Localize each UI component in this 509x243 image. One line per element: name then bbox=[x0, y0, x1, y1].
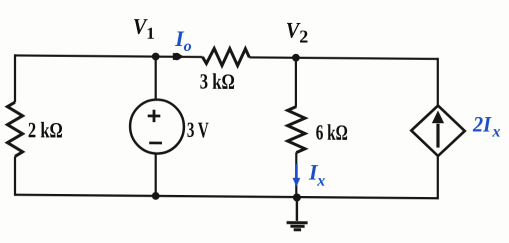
wire V1 to source top bbox=[155, 57, 157, 100]
voltage source V 3V circle bbox=[130, 99, 184, 153]
ground bar 1 bbox=[287, 221, 308, 224]
wire top-right segment bbox=[249, 57, 437, 59]
wire source bottom to bottom node bbox=[155, 153, 157, 196]
svg-text:2I: 2I bbox=[472, 112, 492, 137]
plus sign bbox=[148, 110, 161, 123]
node V2 dot bbox=[292, 54, 300, 62]
wire right side upper bbox=[437, 58, 439, 106]
node bottom-middle dot bbox=[152, 192, 160, 200]
resistor R3 6 kOhm zigzag bbox=[288, 106, 305, 152]
Ix blue arrow head bbox=[293, 178, 301, 187]
svg-text:3 V: 3 V bbox=[187, 117, 209, 142]
svg-text:2 kΩ: 2 kΩ bbox=[28, 117, 63, 142]
ground bar 2 bbox=[290, 225, 304, 228]
ground stem bbox=[296, 197, 298, 220]
wire bottom bbox=[15, 195, 438, 199]
node V1 dot bbox=[152, 53, 160, 61]
wire left side lower bbox=[14, 156, 16, 195]
svg-text:x: x bbox=[492, 124, 501, 141]
wire right side lower bbox=[437, 156, 439, 199]
resistor R1 2 kOhm zigzag bbox=[7, 102, 22, 156]
svg-text:x: x bbox=[316, 173, 325, 190]
current source arrow head bbox=[432, 110, 444, 123]
ground bar 3 bbox=[294, 228, 301, 231]
svg-text:1: 1 bbox=[146, 24, 154, 43]
resistor R2 3 kOhm zigzag bbox=[203, 48, 250, 65]
Ix blue arrow shaft bbox=[295, 164, 298, 179]
current source diamond 2Ix bbox=[411, 105, 464, 156]
Io arrow on top wire bbox=[173, 53, 184, 60]
minus sign bbox=[149, 142, 162, 145]
svg-text:2: 2 bbox=[299, 27, 308, 47]
node ground junction dot bbox=[293, 193, 301, 201]
svg-text:o: o bbox=[184, 38, 192, 55]
svg-text:3 kΩ: 3 kΩ bbox=[200, 68, 235, 93]
current source arrow shaft bbox=[436, 124, 439, 148]
svg-text:6 kΩ: 6 kΩ bbox=[316, 120, 348, 145]
wire V2 to 6k top bbox=[295, 58, 297, 107]
wire top-left segment bbox=[15, 55, 203, 57]
wire 6k bottom to ground node bbox=[295, 152, 297, 197]
wire left side upper bbox=[14, 54, 16, 102]
